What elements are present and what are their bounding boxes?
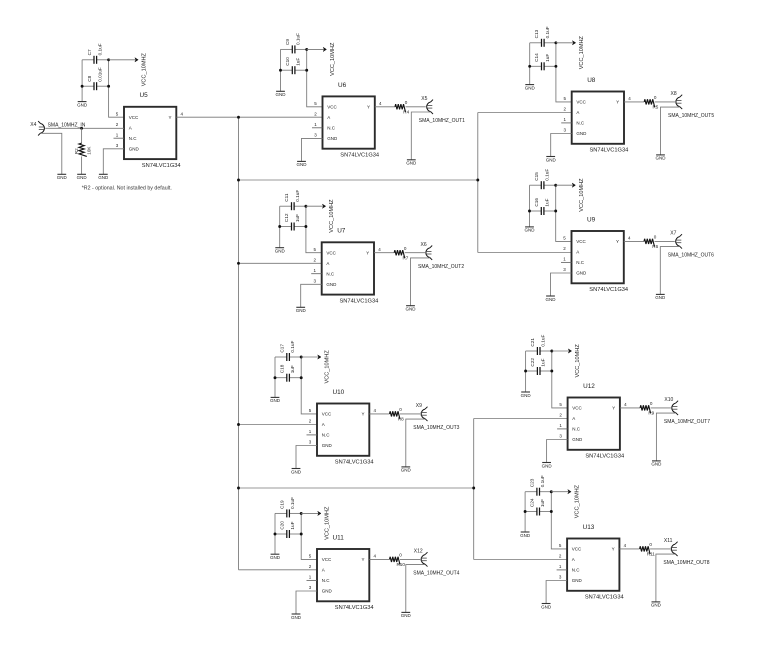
svg-text:0: 0	[650, 401, 653, 406]
svg-text:10K: 10K	[87, 146, 92, 155]
label SN74LVC1G34 (U8)	[590, 148, 629, 154]
wire pin 3 to ground	[547, 440, 568, 463]
wire to U9 pin A	[478, 252, 572, 254]
wire cap top rail	[526, 350, 552, 352]
svg-text:U9: U9	[587, 216, 596, 223]
wire SMA shell to ground	[411, 112, 430, 160]
svg-text:U12: U12	[583, 383, 595, 390]
wire cap top rail	[530, 42, 556, 44]
ground (X8 shell)	[656, 155, 667, 161]
svg-text:VCC_10MHZ: VCC_10MHZ	[325, 350, 331, 384]
svg-text:R2: R2	[74, 148, 79, 154]
svg-text:GND: GND	[576, 271, 587, 276]
junction	[472, 487, 475, 490]
svg-text:SN74LVC1G34: SN74LVC1G34	[585, 595, 624, 601]
svg-text:A: A	[576, 250, 579, 255]
svg-text:A: A	[322, 422, 325, 427]
resistor R6 0	[644, 235, 659, 250]
wire cap left leg	[274, 513, 276, 554]
label U13	[583, 524, 595, 531]
net label SMA_10MHZ_OUT6	[668, 253, 714, 259]
wire cap left leg	[529, 43, 531, 85]
svg-text:VCC_10MHZ: VCC_10MHZ	[579, 35, 585, 69]
buffer IC U11 SN74LVC1G34	[309, 549, 377, 601]
power net VCC_10MHZ arrow	[306, 204, 326, 208]
junction	[304, 205, 307, 208]
capacitor C9 0.1uF	[285, 33, 301, 54]
svg-text:C22: C22	[530, 358, 535, 367]
svg-text:0.01uF: 0.01uF	[97, 67, 102, 82]
capacitor C18 1uF	[280, 364, 296, 381]
wire cap bottom rail	[275, 377, 301, 379]
svg-text:X5: X5	[421, 96, 427, 102]
svg-text:N.C: N.C	[572, 427, 581, 432]
wire bus to U11 pin A	[239, 569, 318, 571]
svg-text:SMA_10MHZ_OUT5: SMA_10MHZ_OUT5	[668, 113, 714, 119]
junction	[524, 510, 527, 513]
svg-text:0: 0	[404, 246, 407, 251]
wire to U8 pin A	[478, 112, 572, 114]
ground (X7 shell)	[655, 294, 666, 300]
svg-text:C7: C7	[87, 49, 92, 55]
wire pin 3 to ground	[546, 581, 567, 604]
wire VCC feed to pin 5	[306, 206, 322, 253]
buffer IC U7 SN74LVC1G34	[313, 242, 381, 294]
wire Y output	[369, 558, 420, 560]
wire cap left leg	[81, 60, 83, 102]
wire cross feed lower	[239, 487, 474, 489]
junction	[554, 65, 557, 68]
ground (X12 shell)	[401, 612, 412, 618]
ground (decoupling C23/C24)	[520, 532, 531, 538]
wire left distribution bus	[238, 117, 240, 570]
wire cap top rail	[525, 491, 551, 493]
svg-text:GND: GND	[542, 463, 553, 468]
wire cap left leg	[529, 185, 531, 227]
junction	[304, 225, 307, 228]
wire pin 3 to ground	[296, 591, 317, 614]
svg-text:N.C: N.C	[327, 125, 336, 130]
capacitor C22 1uF	[530, 358, 546, 375]
svg-text:GND: GND	[406, 307, 417, 312]
junction	[524, 370, 527, 373]
net label VCC_10MHZ	[329, 199, 335, 233]
buffer IC U12 SN74LVC1G34	[559, 398, 627, 450]
svg-text:U7: U7	[337, 228, 346, 235]
svg-text:GND: GND	[327, 136, 338, 141]
pin 1 N.C stub	[114, 137, 125, 139]
svg-text:SMA_10MHZ_OUT2: SMA_10MHZ_OUT2	[418, 264, 464, 270]
junction	[237, 423, 240, 426]
svg-text:U5: U5	[140, 92, 149, 99]
power net VCC_10MHZ arrow	[556, 41, 576, 45]
svg-text:C16: C16	[534, 198, 539, 207]
svg-text:GND: GND	[521, 393, 532, 398]
svg-text:X7: X7	[670, 231, 676, 237]
svg-text:SN74LVC1G34: SN74LVC1G34	[585, 454, 624, 460]
svg-text:SMA_10MHZ_OUT7: SMA_10MHZ_OUT7	[664, 419, 710, 425]
svg-text:1uF: 1uF	[296, 58, 301, 66]
svg-text:U8: U8	[587, 77, 596, 84]
svg-text:0.1uF: 0.1uF	[545, 26, 550, 38]
ground (U13 pin 3)	[541, 604, 552, 610]
svg-text:N.C: N.C	[322, 433, 331, 438]
ground (R2)	[77, 174, 88, 180]
junction	[237, 262, 240, 265]
capacitor C13 0.1uF	[534, 26, 550, 47]
label U10	[333, 389, 345, 396]
wire VCC feed to pin 5	[556, 43, 572, 102]
svg-text:C11: C11	[284, 193, 289, 202]
svg-text:GND: GND	[401, 468, 412, 473]
wire Y output	[374, 252, 425, 254]
svg-text:A: A	[129, 125, 132, 130]
SMA connector X5	[421, 96, 433, 114]
svg-text:VCC: VCC	[322, 557, 332, 562]
svg-text:GND: GND	[520, 533, 531, 538]
net label VCC_10MHZ	[325, 350, 331, 384]
net label SMA_10MHZ_IN	[48, 122, 86, 128]
svg-text:GND: GND	[275, 249, 286, 254]
svg-text:Y: Y	[367, 104, 370, 109]
wire cap left leg	[525, 351, 527, 392]
ground (decoupling C21/C22)	[521, 392, 532, 398]
SMA connector X11	[664, 538, 678, 556]
svg-text:GND: GND	[576, 131, 587, 136]
svg-text:X11: X11	[664, 538, 673, 544]
net label VCC_10MHZ	[575, 344, 581, 378]
svg-text:C18: C18	[280, 364, 285, 373]
SMA connector X9	[416, 403, 428, 421]
SMA connector X12	[414, 549, 428, 567]
SMA connector X6	[421, 242, 433, 260]
svg-text:0: 0	[399, 407, 402, 412]
net label SMA_10MHZ_OUT1	[419, 118, 465, 124]
svg-text:A: A	[326, 261, 329, 266]
svg-text:N.C: N.C	[322, 578, 331, 583]
junction	[237, 487, 240, 490]
net label VCC_10MHZ	[330, 42, 336, 76]
wire cross feed upper	[239, 179, 478, 181]
wire cap left leg	[274, 357, 276, 397]
pin 1 N.C stub	[307, 434, 318, 436]
wire VCC feed to pin 5	[307, 49, 323, 106]
svg-text:0.1uF: 0.1uF	[97, 43, 102, 55]
svg-text:0.1uF: 0.1uF	[545, 169, 550, 181]
net label VCC_10MHZ	[579, 35, 585, 69]
capacitor C17 0.1uF	[280, 340, 296, 361]
wire cap top rail	[281, 48, 307, 50]
svg-text:1uF: 1uF	[545, 198, 550, 206]
label U6	[338, 82, 347, 89]
wire X4 shell to ground	[41, 133, 62, 174]
capacitor C10 1uF	[285, 57, 301, 74]
wire cap bottom rail	[530, 65, 556, 67]
wire right bus upper	[477, 113, 479, 253]
power net VCC_10MHZ arrow	[307, 47, 327, 51]
buffer IC U10 SN74LVC1G34	[309, 404, 377, 456]
label U12	[583, 383, 595, 390]
capacitor C12 1uF	[284, 213, 300, 230]
svg-text:0: 0	[654, 95, 657, 100]
svg-text:GND: GND	[322, 443, 333, 448]
wire pin 3 to ground	[301, 284, 322, 307]
svg-text:VCC: VCC	[572, 406, 582, 411]
svg-text:SMA_10MHZ_OUT1: SMA_10MHZ_OUT1	[419, 118, 465, 124]
junction	[550, 510, 553, 513]
capacitor C11 0.1uF	[284, 190, 300, 211]
label SN74LVC1G34 (U11)	[335, 605, 374, 611]
buffer IC U8 SN74LVC1G34	[563, 92, 631, 144]
svg-text:*R2 - optional. Not installed: *R2 - optional. Not installed by default…	[82, 186, 172, 192]
svg-text:X8: X8	[671, 91, 677, 97]
svg-text:A: A	[576, 110, 579, 115]
label SN74LVC1G34 (U5)	[142, 163, 181, 169]
svg-text:0.1uF: 0.1uF	[296, 33, 301, 45]
ground (U6 pin 3)	[297, 161, 308, 167]
svg-text:N.C: N.C	[576, 260, 585, 265]
svg-text:X10: X10	[664, 397, 673, 403]
svg-text:GND: GND	[656, 156, 667, 161]
svg-text:GND: GND	[57, 175, 68, 180]
svg-text:GND: GND	[77, 102, 88, 107]
svg-text:1uF: 1uF	[290, 365, 295, 373]
svg-text:GND: GND	[525, 228, 536, 233]
junction	[554, 210, 557, 213]
resistor R11 0	[640, 542, 656, 557]
svg-text:C10: C10	[285, 57, 290, 66]
ground (decoupling C13/C14)	[525, 85, 536, 91]
svg-text:SN74LVC1G34: SN74LVC1G34	[340, 153, 379, 159]
svg-text:VCC_10MHZ: VCC_10MHZ	[329, 199, 335, 233]
svg-text:U10: U10	[333, 389, 345, 396]
wire Y output	[620, 407, 671, 409]
wire Y output	[619, 548, 670, 550]
svg-text:SMA_10MHZ_IN: SMA_10MHZ_IN	[48, 122, 86, 128]
svg-text:GND: GND	[651, 462, 662, 467]
wire cap left leg	[280, 49, 282, 91]
wire SMA shell to ground	[406, 419, 425, 467]
net label SMA_10MHZ_OUT7	[664, 419, 710, 425]
svg-text:0: 0	[399, 553, 402, 558]
capacitor C21 0.1uF	[530, 334, 546, 355]
junction	[528, 210, 531, 213]
capacitor C24 1uF	[530, 498, 546, 515]
wire cap bottom rail	[280, 226, 306, 228]
svg-text:C24: C24	[530, 498, 535, 507]
svg-text:C12: C12	[284, 213, 289, 222]
svg-text:VCC: VCC	[576, 100, 586, 105]
SMA connector X8	[671, 91, 683, 109]
svg-text:VCC_10MHZ: VCC_10MHZ	[330, 42, 336, 76]
resistor R7 0	[394, 246, 409, 260]
svg-text:VCC_10MHZ: VCC_10MHZ	[579, 178, 585, 212]
wire Y output	[624, 240, 675, 242]
svg-text:GND: GND	[401, 613, 412, 618]
wire pin 3 to ground	[296, 446, 317, 469]
svg-text:GND: GND	[77, 175, 88, 180]
net label SMA_10MHZ_OUT3	[413, 425, 459, 431]
svg-text:X12: X12	[414, 549, 423, 555]
ground (X10 shell)	[651, 461, 662, 467]
power net VCC_10MHZ arrow	[301, 511, 321, 515]
power net VCC_10MHZ arrow	[301, 355, 321, 359]
svg-text:SN74LVC1G34: SN74LVC1G34	[340, 299, 379, 305]
svg-text:A: A	[572, 416, 575, 421]
junction	[550, 490, 553, 493]
svg-text:VCC: VCC	[576, 239, 586, 244]
junction	[278, 225, 281, 228]
ground (X5 shell)	[406, 160, 417, 166]
net label SMA_10MHZ_OUT2	[418, 264, 464, 270]
wire Y output	[375, 106, 426, 108]
ground (X11 shell)	[651, 602, 662, 608]
label U7	[337, 228, 346, 235]
svg-text:GND: GND	[572, 578, 583, 583]
svg-text:0.1uF: 0.1uF	[540, 475, 545, 487]
wire to U12 pin A	[474, 418, 568, 420]
junction	[300, 533, 303, 536]
svg-text:SMA_10MHZ_OUT8: SMA_10MHZ_OUT8	[663, 560, 709, 566]
svg-text:1uF: 1uF	[545, 54, 550, 62]
svg-text:SN74LVC1G34: SN74LVC1G34	[335, 605, 374, 611]
svg-text:C21: C21	[530, 338, 535, 347]
ground (U5 pin 3)	[98, 174, 109, 180]
junction	[305, 48, 308, 51]
ground (U12 pin 3)	[542, 463, 553, 469]
svg-text:U11: U11	[333, 534, 345, 541]
wire R2 to ground	[81, 156, 83, 174]
svg-text:GND: GND	[572, 437, 583, 442]
wire VCC feed to U5 pin 5	[109, 60, 124, 117]
svg-text:R10: R10	[396, 562, 405, 567]
ground (U9 pin 3)	[546, 296, 557, 302]
svg-text:R11: R11	[647, 552, 656, 557]
svg-text:Y: Y	[361, 557, 364, 562]
svg-text:N.C: N.C	[572, 568, 581, 573]
ground (decoupling C11/C12)	[275, 248, 286, 254]
svg-text:GND: GND	[270, 398, 281, 403]
wire bus to U7 pin A	[239, 262, 322, 264]
pin 1 N.C stub	[307, 579, 318, 581]
svg-text:R7: R7	[402, 255, 408, 260]
svg-text:N.C: N.C	[576, 121, 585, 126]
svg-text:GND: GND	[525, 85, 536, 90]
resistor R4 0	[395, 100, 410, 115]
net label VCC_10MHZ	[142, 52, 148, 86]
pin 1 N.C stub	[557, 428, 568, 430]
junction	[81, 85, 84, 88]
junction	[528, 65, 531, 68]
junction	[279, 69, 282, 72]
net label VCC_10MHZ	[579, 178, 585, 212]
wire X4 to U5 pin A	[45, 127, 124, 129]
net label SMA_10MHZ_OUT8	[663, 560, 709, 566]
power net VCC_10MHZ arrow	[551, 490, 571, 494]
wire pin 3 to ground	[551, 134, 572, 157]
svg-text:C13: C13	[534, 29, 539, 38]
svg-text:SN74LVC1G34: SN74LVC1G34	[590, 148, 629, 154]
svg-text:SN74LVC1G34: SN74LVC1G34	[589, 287, 628, 293]
resistor R2 10K	[74, 143, 91, 156]
wire SMA shell to ground	[661, 107, 680, 155]
svg-text:Y: Y	[612, 406, 615, 411]
svg-text:Y: Y	[616, 239, 619, 244]
svg-text:GND: GND	[541, 604, 552, 609]
junction	[107, 85, 110, 88]
label SN74LVC1G34 (U12)	[585, 454, 624, 460]
pin 1 N.C stub	[561, 122, 572, 124]
wire SMA shell to ground	[656, 554, 675, 602]
svg-text:SN74LVC1G34: SN74LVC1G34	[335, 460, 374, 466]
junction	[274, 376, 277, 379]
svg-text:0.1uF: 0.1uF	[290, 497, 295, 509]
wire pin 3 to ground	[551, 273, 572, 296]
svg-text:C15: C15	[534, 172, 539, 181]
pin 1 N.C stub	[561, 261, 572, 263]
ground (decoupling C17/C18)	[270, 397, 281, 403]
svg-text:GND: GND	[546, 297, 557, 302]
pin 1 N.C stub	[557, 569, 568, 571]
wire bus to U6 pin A	[239, 116, 323, 118]
svg-text:C19: C19	[280, 500, 285, 509]
ground (U8 pin 3)	[546, 157, 557, 163]
svg-text:0: 0	[654, 235, 657, 240]
svg-text:GND: GND	[326, 282, 337, 287]
junction	[300, 356, 303, 359]
wire SMA shell to ground	[660, 247, 679, 295]
svg-text:GND: GND	[98, 175, 109, 180]
svg-text:VCC: VCC	[572, 547, 582, 552]
svg-text:1uF: 1uF	[290, 521, 295, 529]
svg-text:N.C: N.C	[326, 271, 335, 276]
buffer IC U5 SN74LVC1G34	[116, 107, 184, 159]
svg-text:0.1uF: 0.1uF	[295, 190, 300, 202]
svg-text:C14: C14	[534, 53, 539, 62]
wire cap top rail	[275, 512, 301, 514]
junction	[550, 350, 553, 353]
label SN74LVC1G34 (U10)	[335, 460, 374, 466]
power net VCC_10MHZ arrow	[552, 349, 572, 353]
wire VCC feed to pin 5	[301, 357, 317, 414]
capacitor C8 0.01uF	[87, 67, 103, 90]
wire cap top rail	[275, 356, 301, 358]
svg-text:X9: X9	[416, 403, 422, 409]
junction	[305, 69, 308, 72]
junction	[237, 179, 240, 182]
junction	[476, 179, 479, 182]
wire VCC feed to pin 5	[556, 185, 572, 241]
ground (decoupling C7/C8)	[77, 102, 88, 108]
svg-text:Y: Y	[361, 412, 364, 417]
capacitor C7 0.1uF	[87, 43, 103, 64]
svg-text:R8: R8	[398, 417, 404, 422]
label U11	[333, 534, 345, 541]
svg-text:GND: GND	[406, 161, 417, 166]
net label VCC_10MHZ	[575, 484, 581, 518]
svg-text:C8: C8	[87, 75, 92, 81]
resistor R5 0	[644, 95, 659, 110]
capacitor C16 1uF	[534, 198, 550, 215]
label U5	[140, 92, 149, 99]
capacitor C15 0.1uF	[534, 169, 550, 190]
svg-text:SMA_10MHZ_OUT6: SMA_10MHZ_OUT6	[668, 253, 714, 259]
net label SMA_10MHZ_OUT5	[668, 113, 714, 119]
wire cap bottom rail	[526, 370, 552, 372]
ground (X6 shell)	[406, 306, 417, 312]
wire cap bottom rail	[82, 85, 109, 87]
SMA connector X7	[670, 231, 682, 249]
